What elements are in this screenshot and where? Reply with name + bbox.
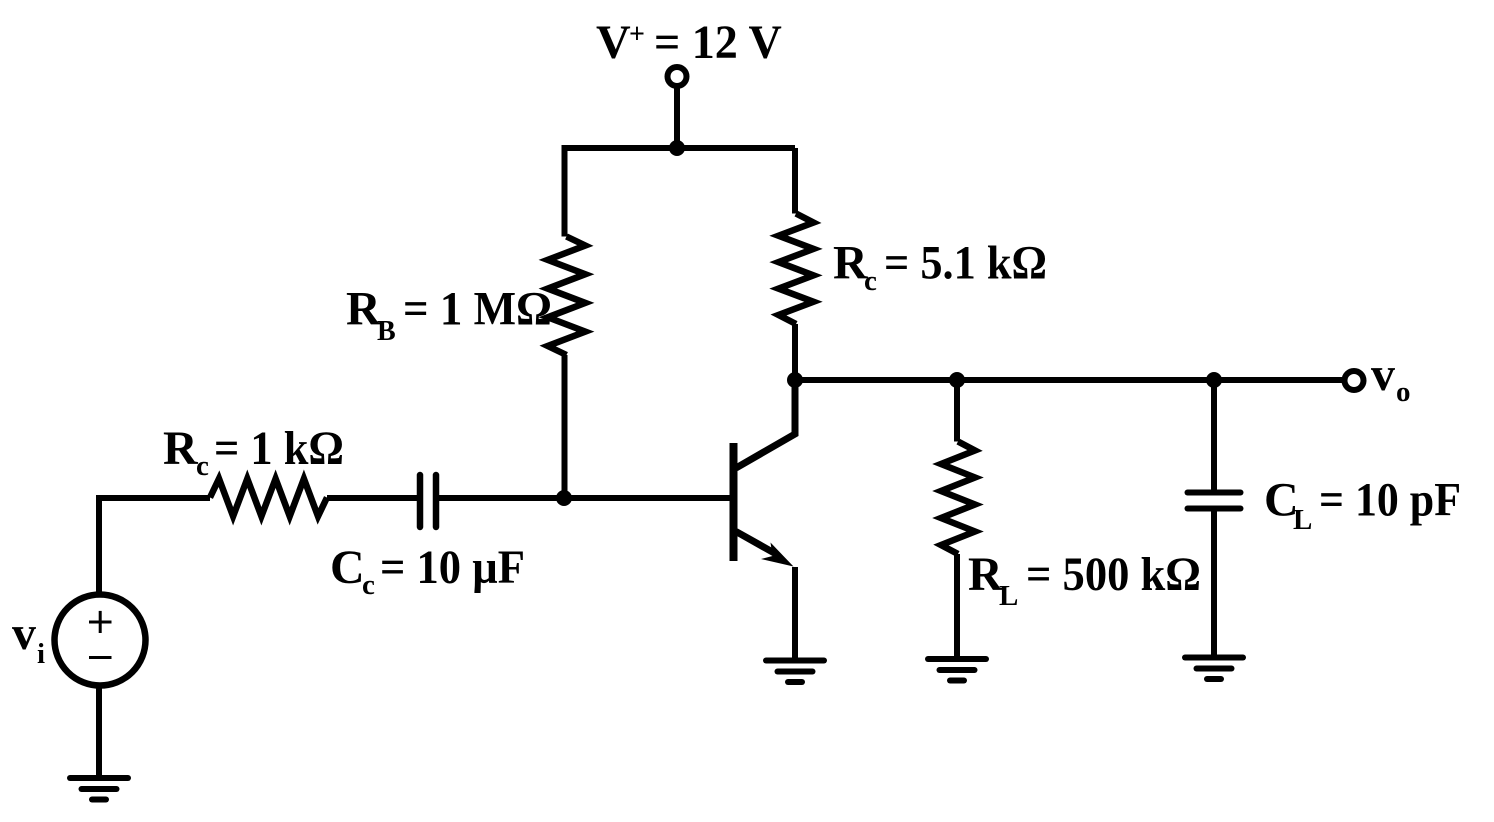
source v_i plus sign xyxy=(89,621,112,624)
node: collector/output junction xyxy=(787,372,803,388)
label C_L = 10 pF xyxy=(1264,474,1461,537)
label R_c = 5.1 kOhm xyxy=(833,237,1047,298)
label R_c = 1 kOhm (input) xyxy=(163,422,344,482)
label R_B = 1 MOhm xyxy=(346,283,552,348)
wire: R_L to ground xyxy=(954,554,960,659)
wire: R_B branch upper segment xyxy=(562,148,568,237)
svg-text:i: i xyxy=(37,638,45,670)
wire: input rail from source corner to resistor xyxy=(96,498,102,597)
wire: source to ground xyxy=(96,685,102,779)
resistor R_c = 5.1 kOhm xyxy=(779,214,814,325)
node: supply rail junction xyxy=(669,140,685,156)
svg-text:= 12 V: = 12 V xyxy=(654,16,782,69)
label v_o xyxy=(1371,348,1411,408)
svg-text:o: o xyxy=(1396,376,1411,408)
svg-text:L: L xyxy=(1293,504,1312,536)
resistor R_L = 500 kOhm xyxy=(941,442,975,555)
wire: output node to C_L xyxy=(1211,380,1217,490)
source v_i minus sign xyxy=(89,656,112,659)
wire: output rail xyxy=(795,377,1345,383)
ground: v_i source xyxy=(70,775,128,781)
svg-text:= 500 kΩ: = 500 kΩ xyxy=(1026,548,1201,601)
power terminal V+ open circle xyxy=(668,67,687,86)
capacitor C_c coupling xyxy=(417,475,424,527)
transistor Q1 collector lead xyxy=(736,382,795,468)
label C_c = 10 uF xyxy=(330,541,525,601)
wire: emitter to ground xyxy=(792,567,798,661)
terminal v_o open circle xyxy=(1345,371,1364,390)
wire: C_L to ground xyxy=(1211,511,1217,658)
node: C_L junction xyxy=(1206,372,1222,388)
wire: top supply rail xyxy=(562,145,796,151)
ground: emitter xyxy=(766,658,824,664)
svg-text:= 10 µF: = 10 µF xyxy=(380,541,525,594)
wire: output node to R_L xyxy=(954,380,960,442)
wire: R_c branch upper segment xyxy=(792,148,798,214)
svg-text:v: v xyxy=(12,607,36,660)
node: R_L junction xyxy=(949,372,965,388)
svg-text:c: c xyxy=(362,569,375,601)
svg-text:= 5.1 kΩ: = 5.1 kΩ xyxy=(884,237,1047,290)
source v_i circle xyxy=(55,595,146,686)
svg-text:= 1 MΩ: = 1 MΩ xyxy=(403,283,552,336)
ground: C_L xyxy=(1185,655,1243,661)
svg-text:v: v xyxy=(1371,348,1395,401)
wire: cap to transistor base xyxy=(439,495,730,501)
svg-text:+: + xyxy=(629,19,645,50)
capacitor C_L load xyxy=(1188,490,1241,496)
svg-text:B: B xyxy=(377,316,396,347)
wire: collector wire down to output node xyxy=(792,324,798,380)
node: base node junction xyxy=(556,490,572,506)
svg-text:C: C xyxy=(330,541,365,594)
wire: R_B branch lower segment xyxy=(562,355,568,498)
svg-text:L: L xyxy=(999,580,1018,612)
resistor R_B = 1 MOhm xyxy=(548,237,586,356)
ground: R_L xyxy=(928,656,986,662)
label v_i xyxy=(12,607,45,670)
svg-text:c: c xyxy=(864,265,877,297)
svg-text:= 1 kΩ: = 1 kΩ xyxy=(214,422,344,475)
label R_L = 500 kOhm xyxy=(968,548,1201,612)
power terminal V+ stub wire xyxy=(674,87,680,148)
svg-text:c: c xyxy=(196,450,209,482)
transistor Q1 base bar xyxy=(730,443,738,561)
svg-text:= 10 pF: = 10 pF xyxy=(1319,474,1461,527)
label V+ = 12 V xyxy=(596,16,782,69)
svg-text:R: R xyxy=(163,422,199,475)
wire: resistor to coupling cap xyxy=(327,495,418,501)
resistor R_c = 1 kOhm (input series) xyxy=(210,479,327,517)
transistor Q1 emitter lead with arrow xyxy=(736,532,776,555)
svg-text:V: V xyxy=(596,16,631,69)
